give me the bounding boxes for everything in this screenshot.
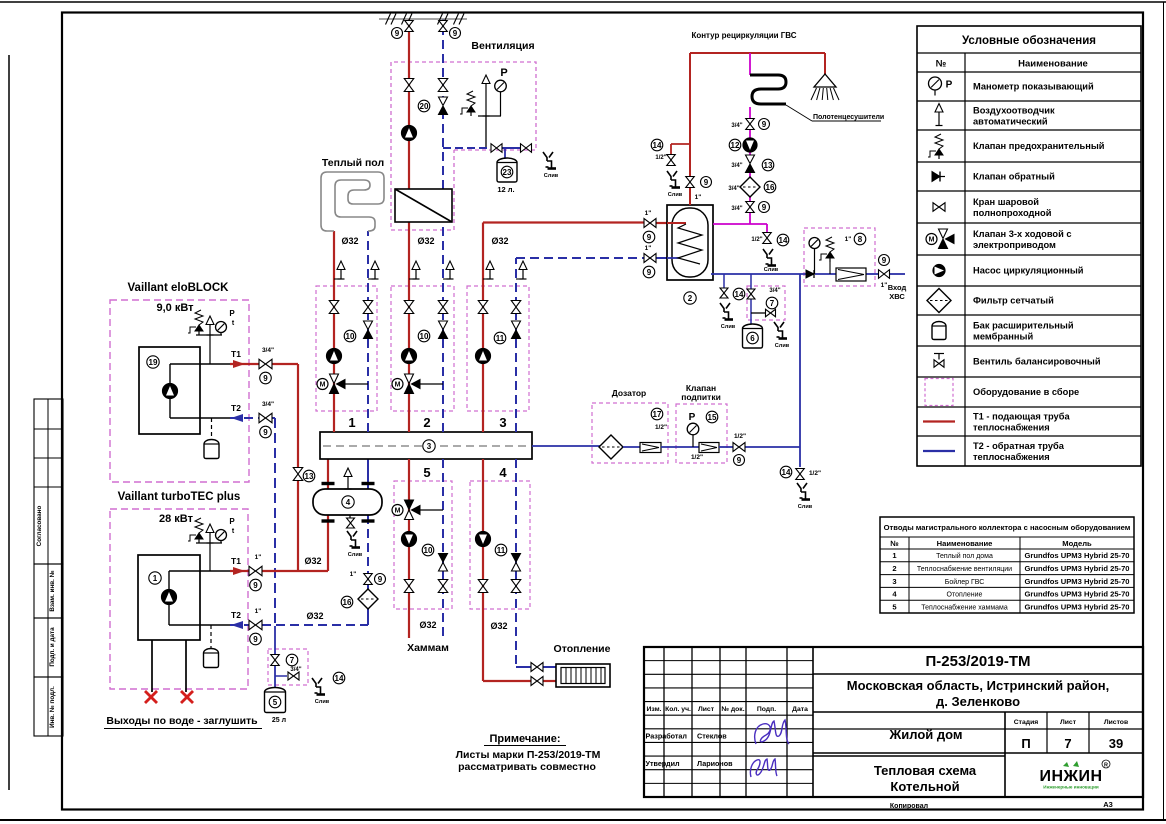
label Подп. и дата <box>49 627 56 667</box>
svg-text:7: 7 <box>290 656 295 665</box>
plug mark X right <box>181 691 193 703</box>
label T2 turboTEC <box>231 610 241 620</box>
svg-text:1/2": 1/2" <box>751 237 762 243</box>
expansion tank 6 <box>743 324 763 348</box>
item number 13 recirc <box>762 159 774 171</box>
svg-text:электроприводом: электроприводом <box>973 240 1056 250</box>
legend text кран шаровой <box>973 197 1052 218</box>
svg-text:Кол. уч.: Кол. уч. <box>665 706 691 713</box>
label Согласовано <box>36 506 43 547</box>
item number 16 recirc <box>764 181 776 193</box>
separator drain valve <box>347 515 355 528</box>
label T1 turboTEC <box>231 556 241 566</box>
collector outlet numbers <box>348 415 507 480</box>
wire riser1 red <box>333 231 335 432</box>
safety valve turboTEC <box>188 518 203 543</box>
item number 7 left <box>286 654 298 666</box>
valve riser4 blue <box>511 580 521 593</box>
item number 15 <box>706 411 718 423</box>
item number 9 подпитки <box>734 455 745 466</box>
flow arrow T2 eloBLOCK <box>231 414 243 422</box>
drain funnel ГВС bottom <box>720 303 736 330</box>
svg-text:Grundfos UPM3 Hybrid 25-70: Grundfos UPM3 Hybrid 25-70 <box>1024 602 1129 611</box>
svg-text:Ларионов: Ларионов <box>697 759 733 768</box>
svg-text:1/2": 1/2" <box>655 424 667 431</box>
label Ø32 turboTEC T1 <box>304 556 321 566</box>
svg-text:Бойлер ГВС: Бойлер ГВС <box>945 578 985 586</box>
svg-text:28 кВт: 28 кВт <box>159 513 194 525</box>
valve вент expansion left <box>491 144 502 153</box>
valve riser4 red <box>478 580 488 593</box>
label Теплый пол <box>322 157 384 169</box>
air vent riser3 red <box>483 261 494 279</box>
svg-text:Т1 - подающая труба: Т1 - подающая труба <box>973 412 1070 422</box>
svg-text:Фильтр сетчатый: Фильтр сетчатый <box>973 296 1054 306</box>
check valve riser4 blue <box>512 554 521 572</box>
gauge водомер <box>809 238 820 275</box>
valve 9 turboTEC T1 <box>249 566 262 576</box>
svg-text:Дата: Дата <box>792 706 808 713</box>
equipment box дозатор <box>592 403 668 463</box>
svg-text:9: 9 <box>737 456 742 465</box>
svg-text:T1: T1 <box>231 349 241 359</box>
check valve recirc 13 <box>746 155 755 173</box>
valve 9 eloBLOCK T2 <box>259 413 272 423</box>
flow arrow T1 eloBLOCK <box>233 360 245 368</box>
svg-text:П: П <box>1021 736 1030 751</box>
legend text манометр <box>973 82 1094 92</box>
gauge вентиляция P <box>495 67 508 116</box>
item number 9 recirc lower <box>759 202 770 213</box>
item number 9 T2 turboTEC <box>250 633 262 645</box>
separator flange top blue <box>362 482 375 485</box>
svg-text:Контур рециркуляции ГВС: Контур рециркуляции ГВС <box>691 31 796 40</box>
label Полотенцесушители <box>813 114 884 121</box>
svg-text:T2: T2 <box>231 610 241 620</box>
svg-text:4: 4 <box>499 465 507 480</box>
legend symbol оборудование в сборе <box>925 379 953 406</box>
label 1/2 дозатор <box>655 424 667 431</box>
svg-text:Теплоснабжение вентиляции: Теплоснабжение вентиляции <box>917 565 1012 573</box>
towel dryer coil <box>750 53 786 119</box>
svg-text:подпитки: подпитки <box>681 392 721 402</box>
svg-text:Слив: Слив <box>721 324 736 330</box>
svg-text:№: № <box>890 539 898 548</box>
label Vaillant turboTEC plus <box>118 491 241 503</box>
svg-text:1: 1 <box>153 574 158 583</box>
label примечание line2 <box>456 749 601 761</box>
wire separator red riser <box>327 459 329 571</box>
wire riser5 red <box>408 459 410 638</box>
valve 9 подпитки <box>733 443 745 452</box>
svg-text:1": 1" <box>645 210 652 217</box>
item number 14 bottom left <box>333 672 345 684</box>
equipment box riser 2 <box>391 286 454 411</box>
valve вент expansion right <box>521 144 532 153</box>
svg-text:9: 9 <box>704 178 709 187</box>
svg-text:3/4": 3/4" <box>769 288 780 294</box>
svg-text:10: 10 <box>424 546 433 555</box>
legend column headers <box>936 59 1088 70</box>
separator flange top red <box>322 482 335 485</box>
svg-text:Инженерные инновации: Инженерные инновации <box>1043 785 1099 790</box>
pump riser3 <box>476 349 491 364</box>
svg-text:7: 7 <box>1064 736 1071 751</box>
label Vaillant eloBLOCK <box>128 282 230 294</box>
svg-text:Т2 - обратная труба: Т2 - обратная труба <box>973 441 1065 451</box>
flow arrow T2 turboTEC <box>231 621 243 629</box>
svg-text:3: 3 <box>427 442 432 451</box>
svg-text:13: 13 <box>764 161 773 170</box>
svg-text:M: M <box>320 382 326 389</box>
svg-text:9: 9 <box>253 581 258 590</box>
check valve riser1 blue <box>364 321 373 339</box>
wire вент expansion line <box>443 147 520 149</box>
filter recirc 16 <box>740 177 760 197</box>
drain branch 14 ГВС bottom <box>723 274 725 288</box>
air vent riser3 blue <box>516 261 527 279</box>
label 1/2 подпитки валве <box>734 433 746 440</box>
svg-text:Тепловая схема: Тепловая схема <box>874 763 977 778</box>
safety group eloBLOCK <box>196 335 222 364</box>
valve riser1 blue <box>363 301 373 314</box>
valve in box 7 left <box>271 655 280 666</box>
svg-text:Изм.: Изм. <box>646 706 661 713</box>
safety valve вентиляция <box>460 91 475 116</box>
wire eloBLOCK T1 riser red <box>297 364 299 571</box>
pump riser4 <box>476 532 491 547</box>
legend table grid <box>917 26 1141 466</box>
svg-text:Ø32: Ø32 <box>490 621 507 631</box>
three-way valve riser2 <box>392 374 443 394</box>
svg-text:9: 9 <box>263 428 268 437</box>
svg-text:3: 3 <box>499 415 506 430</box>
equipment box водомерный узел 8 <box>804 228 875 286</box>
signature 2 <box>750 759 777 777</box>
svg-text:Разработал: Разработал <box>646 732 688 741</box>
svg-text:Выходы по воде - заглушить: Выходы по воде - заглушить <box>106 715 258 727</box>
valve 14 ГВС out drain <box>763 233 772 244</box>
equipment box expansion valve 7 right <box>747 286 785 320</box>
svg-text:Ø32: Ø32 <box>417 236 434 246</box>
svg-text:4: 4 <box>346 498 351 507</box>
svg-text:Наименование: Наименование <box>1018 59 1088 70</box>
pump table rows <box>892 551 1129 611</box>
svg-text:Жилой дом: Жилой дом <box>888 727 962 742</box>
svg-text:Стадия: Стадия <box>1014 719 1039 726</box>
svg-text:Слив: Слив <box>544 173 559 179</box>
item number 10 riser5 <box>422 544 434 556</box>
svg-text:14: 14 <box>653 141 662 150</box>
label Примечание <box>484 733 566 746</box>
svg-text:5: 5 <box>423 465 430 480</box>
label Полотенцесушители pointer <box>786 105 881 121</box>
svg-text:автоматический: автоматический <box>973 117 1048 127</box>
valve 9 recirc lower <box>746 202 755 213</box>
wire riser5 blue <box>442 459 444 637</box>
svg-text:Насос циркуляционный: Насос циркуляционный <box>973 266 1084 276</box>
svg-text:Ø32: Ø32 <box>341 236 358 246</box>
equipment box expansion valve 7 left <box>268 649 308 685</box>
svg-text:Оборудование в сборе: Оборудование в сборе <box>973 387 1079 397</box>
filter дозатор <box>599 435 623 459</box>
legend symbol линия Т2 <box>923 450 955 452</box>
wire T2 eloBLOCK blue <box>230 417 275 419</box>
wire riser1 blue <box>367 231 369 432</box>
svg-text:20: 20 <box>420 102 429 111</box>
label Ø32 riser3 <box>491 236 508 246</box>
air vent riser2 red <box>409 261 420 279</box>
valve riser3 blue <box>511 301 521 314</box>
wire подпитка to ХВС <box>719 446 800 448</box>
svg-text:1": 1" <box>845 236 852 243</box>
legend text клапан предохранительный <box>973 141 1105 151</box>
item number 9 top red <box>392 28 403 39</box>
svg-text:14: 14 <box>335 674 344 683</box>
pump riser2 <box>402 349 417 364</box>
svg-text:1": 1" <box>881 282 888 289</box>
svg-text:Vaillant turboTEC plus: Vaillant turboTEC plus <box>118 491 241 503</box>
logo ИНЖИН <box>1039 760 1110 790</box>
svg-text:Grundfos UPM3 Hybrid 25-70: Grundfos UPM3 Hybrid 25-70 <box>1024 590 1129 599</box>
svg-text:M: M <box>395 508 401 515</box>
svg-text:3/4": 3/4" <box>290 667 301 673</box>
svg-text:16: 16 <box>766 183 775 192</box>
svg-text:12: 12 <box>731 141 740 150</box>
item number 9 T1 turboTEC <box>250 579 262 591</box>
item number 14 ХВС <box>780 466 792 478</box>
valve riser3 red <box>478 301 488 314</box>
pump table headers <box>890 539 1092 548</box>
wire riser4 blue <box>516 459 556 667</box>
legend text Т1 <box>973 412 1070 433</box>
svg-text:1": 1" <box>255 554 262 561</box>
air vent eloBLOCK <box>206 316 214 335</box>
drain funnel ГВС left <box>667 171 683 198</box>
item number 7 right <box>766 297 778 309</box>
safety group вентиляция <box>478 116 501 148</box>
valve 14 ГВС bottom <box>720 288 728 298</box>
equipment box riser 3 <box>467 286 529 411</box>
legend text воздухоотводчик <box>973 106 1055 127</box>
svg-text:3/4": 3/4" <box>262 401 274 408</box>
top break line <box>379 14 467 25</box>
item number 1 <box>149 572 161 584</box>
item number 9 T2 eloBLOCK <box>260 426 272 438</box>
item number 9 top blue <box>450 28 461 39</box>
svg-text:13: 13 <box>305 472 314 481</box>
svg-text:M: M <box>395 382 401 389</box>
legend symbol клапан обратный <box>932 172 945 182</box>
svg-text:Листы марки П-253/2019-ТМ: Листы марки П-253/2019-ТМ <box>456 749 601 761</box>
valve riser1 red <box>329 301 339 314</box>
svg-text:T2: T2 <box>231 403 241 413</box>
svg-text:2: 2 <box>423 415 430 430</box>
svg-text:9: 9 <box>882 256 887 265</box>
svg-text:П-253/2019-ТМ: П-253/2019-ТМ <box>926 653 1031 670</box>
svg-text:Слив: Слив <box>775 343 790 349</box>
valve riser2 red <box>404 301 414 314</box>
svg-text:39: 39 <box>1109 736 1123 751</box>
svg-text:11: 11 <box>496 334 505 343</box>
svg-text:Grundfos UPM3 Hybrid 25-70: Grundfos UPM3 Hybrid 25-70 <box>1024 564 1129 573</box>
svg-text:1/2": 1/2" <box>655 155 666 161</box>
legend text фильтр <box>973 296 1054 306</box>
svg-text:9: 9 <box>253 635 258 644</box>
svg-text:19: 19 <box>149 358 158 367</box>
svg-text:7: 7 <box>770 299 775 308</box>
drain funnel 14 bottom left <box>312 678 330 705</box>
valve 9 boiler T2 <box>644 254 656 263</box>
item number 9 ГВС top <box>701 177 712 188</box>
valve 9 eloBLOCK T1 <box>259 359 272 369</box>
expansion stub turboTEC <box>210 625 212 649</box>
drain line box 7 right <box>751 312 765 314</box>
legend text клапан 3-х ходовой <box>973 229 1072 250</box>
svg-text:Ø32: Ø32 <box>419 620 436 630</box>
legend symbol вентиль балансировочный <box>934 354 944 368</box>
label 1 inch T2 riser <box>350 571 357 578</box>
label Ø32 riser4 <box>490 621 507 631</box>
svg-text:Теплый пол дома: Теплый пол дома <box>936 552 993 560</box>
svg-text:3/4": 3/4" <box>262 347 274 354</box>
meter клапан подпитки <box>699 443 719 453</box>
three-way valve riser5 <box>392 500 443 520</box>
svg-text:R: R <box>1104 763 1108 769</box>
drain funnel вентиляция <box>543 152 559 179</box>
wire riser3 blue <box>516 258 667 432</box>
item number 13 <box>303 470 315 482</box>
svg-text:Подп.: Подп. <box>757 706 776 713</box>
svg-text:Модель: Модель <box>1062 539 1092 548</box>
svg-text:1: 1 <box>348 415 355 430</box>
legend text оборудование <box>973 387 1079 397</box>
valve 14 слив ХВС <box>796 469 805 480</box>
svg-text:1/2": 1/2" <box>734 433 746 440</box>
left margin stamp table <box>34 399 63 736</box>
label 3/4 box7 left <box>290 667 301 673</box>
svg-text:P: P <box>229 309 235 318</box>
air vent riser1 blue <box>368 261 379 279</box>
flow arrow T1 turboTEC <box>233 567 245 575</box>
svg-text:рассматривать совместно: рассматривать совместно <box>458 761 596 773</box>
label Дозатор <box>612 388 647 398</box>
title block жилой дом <box>888 727 962 742</box>
air vent separator <box>344 468 352 489</box>
valve 9 on T2 riser <box>364 574 373 585</box>
item number 9 ХВС <box>879 255 890 266</box>
expansion tank 23 <box>497 158 517 182</box>
svg-text:3/4": 3/4" <box>728 186 739 192</box>
filter 16 on T2 <box>358 589 378 609</box>
svg-text:1": 1" <box>255 608 262 615</box>
svg-text:Полотенцесушители: Полотенцесушители <box>813 114 884 121</box>
equipment box riser 1 <box>316 286 377 411</box>
legend symbol насос <box>933 265 945 277</box>
check valve riser3 blue <box>512 321 521 339</box>
svg-text:Лист: Лист <box>1060 719 1077 726</box>
svg-text:мембранный: мембранный <box>973 332 1033 342</box>
label 25 л <box>272 717 286 724</box>
svg-text:25 л: 25 л <box>272 717 286 724</box>
label T2 eloBLOCK <box>231 403 241 413</box>
svg-text:Наименование: Наименование <box>937 539 993 548</box>
pump recirc 12 <box>743 138 757 152</box>
title block шифр <box>926 653 1031 670</box>
svg-text:Кран шаровой: Кран шаровой <box>973 197 1039 207</box>
signature 1 <box>755 720 789 744</box>
svg-text:23: 23 <box>503 168 512 177</box>
label Вентиляция <box>471 40 534 52</box>
svg-text:3/4": 3/4" <box>731 206 742 212</box>
drain funnel ГВС out <box>763 249 779 273</box>
meter дозатор <box>640 443 661 453</box>
label Ø32 riser5 <box>419 620 436 630</box>
valve 14 ГВС drain <box>667 155 676 166</box>
valve отопление return <box>531 663 543 672</box>
hydraulic separator <box>313 489 382 515</box>
wire separator blue riser <box>367 459 369 625</box>
check valve водомер <box>806 270 814 278</box>
item number 3 <box>423 440 435 452</box>
drain valve box 7 right <box>766 309 776 317</box>
title block утвердил <box>646 759 734 768</box>
pump table title <box>884 523 1131 532</box>
svg-text:Теплый пол: Теплый пол <box>322 157 384 169</box>
svg-text:10: 10 <box>420 332 429 341</box>
svg-text:Примечание:: Примечание: <box>489 733 560 745</box>
pump вентиляция riser <box>402 126 417 141</box>
legend symbol кран шаровой <box>933 203 945 212</box>
svg-text:14: 14 <box>782 468 791 477</box>
label Ø32 turboTEC T2 <box>306 611 323 621</box>
svg-text:Слив: Слив <box>315 699 330 705</box>
item number 12 <box>729 139 741 151</box>
svg-text:Котельной: Котельной <box>890 779 959 794</box>
label 1 inch ХВС <box>881 282 888 289</box>
svg-text:Отопление: Отопление <box>947 592 983 599</box>
svg-text:Слив: Слив <box>668 192 683 198</box>
plug mark X left <box>145 691 157 703</box>
svg-text:Копировал: Копировал <box>890 803 928 810</box>
item number 9 T2 riser <box>375 574 386 585</box>
boiler eloBLOCK body <box>139 347 230 434</box>
safety group turboTEC <box>196 543 222 571</box>
item number 16 T2 <box>341 596 353 608</box>
svg-text:P: P <box>946 80 953 91</box>
valve вент blue upper <box>438 79 448 92</box>
item number 20 <box>418 100 430 112</box>
svg-text:Слив: Слив <box>348 552 363 558</box>
svg-text:№ док.: № док. <box>721 706 744 713</box>
label 1 inch T2 <box>255 608 262 615</box>
valve вент blue top <box>439 21 448 32</box>
svg-text:Grundfos UPM3 Hybrid 25-70: Grundfos UPM3 Hybrid 25-70 <box>1024 577 1129 586</box>
valve riser5 blue <box>438 580 448 593</box>
wire riser3 red <box>483 223 667 433</box>
legend symbol клапан предохранительный <box>928 134 943 159</box>
label Выходы по воде <box>104 715 262 729</box>
check valve riser2 blue <box>439 321 448 339</box>
label 28 кВт <box>159 513 194 525</box>
air vent turboTEC <box>206 524 214 543</box>
svg-text:1": 1" <box>695 194 702 201</box>
title block column headers <box>646 706 808 713</box>
radiator ribs <box>566 668 601 684</box>
svg-text:1": 1" <box>350 571 357 578</box>
wire ХВС cold line <box>711 273 905 275</box>
valve отопление supply <box>531 677 543 686</box>
